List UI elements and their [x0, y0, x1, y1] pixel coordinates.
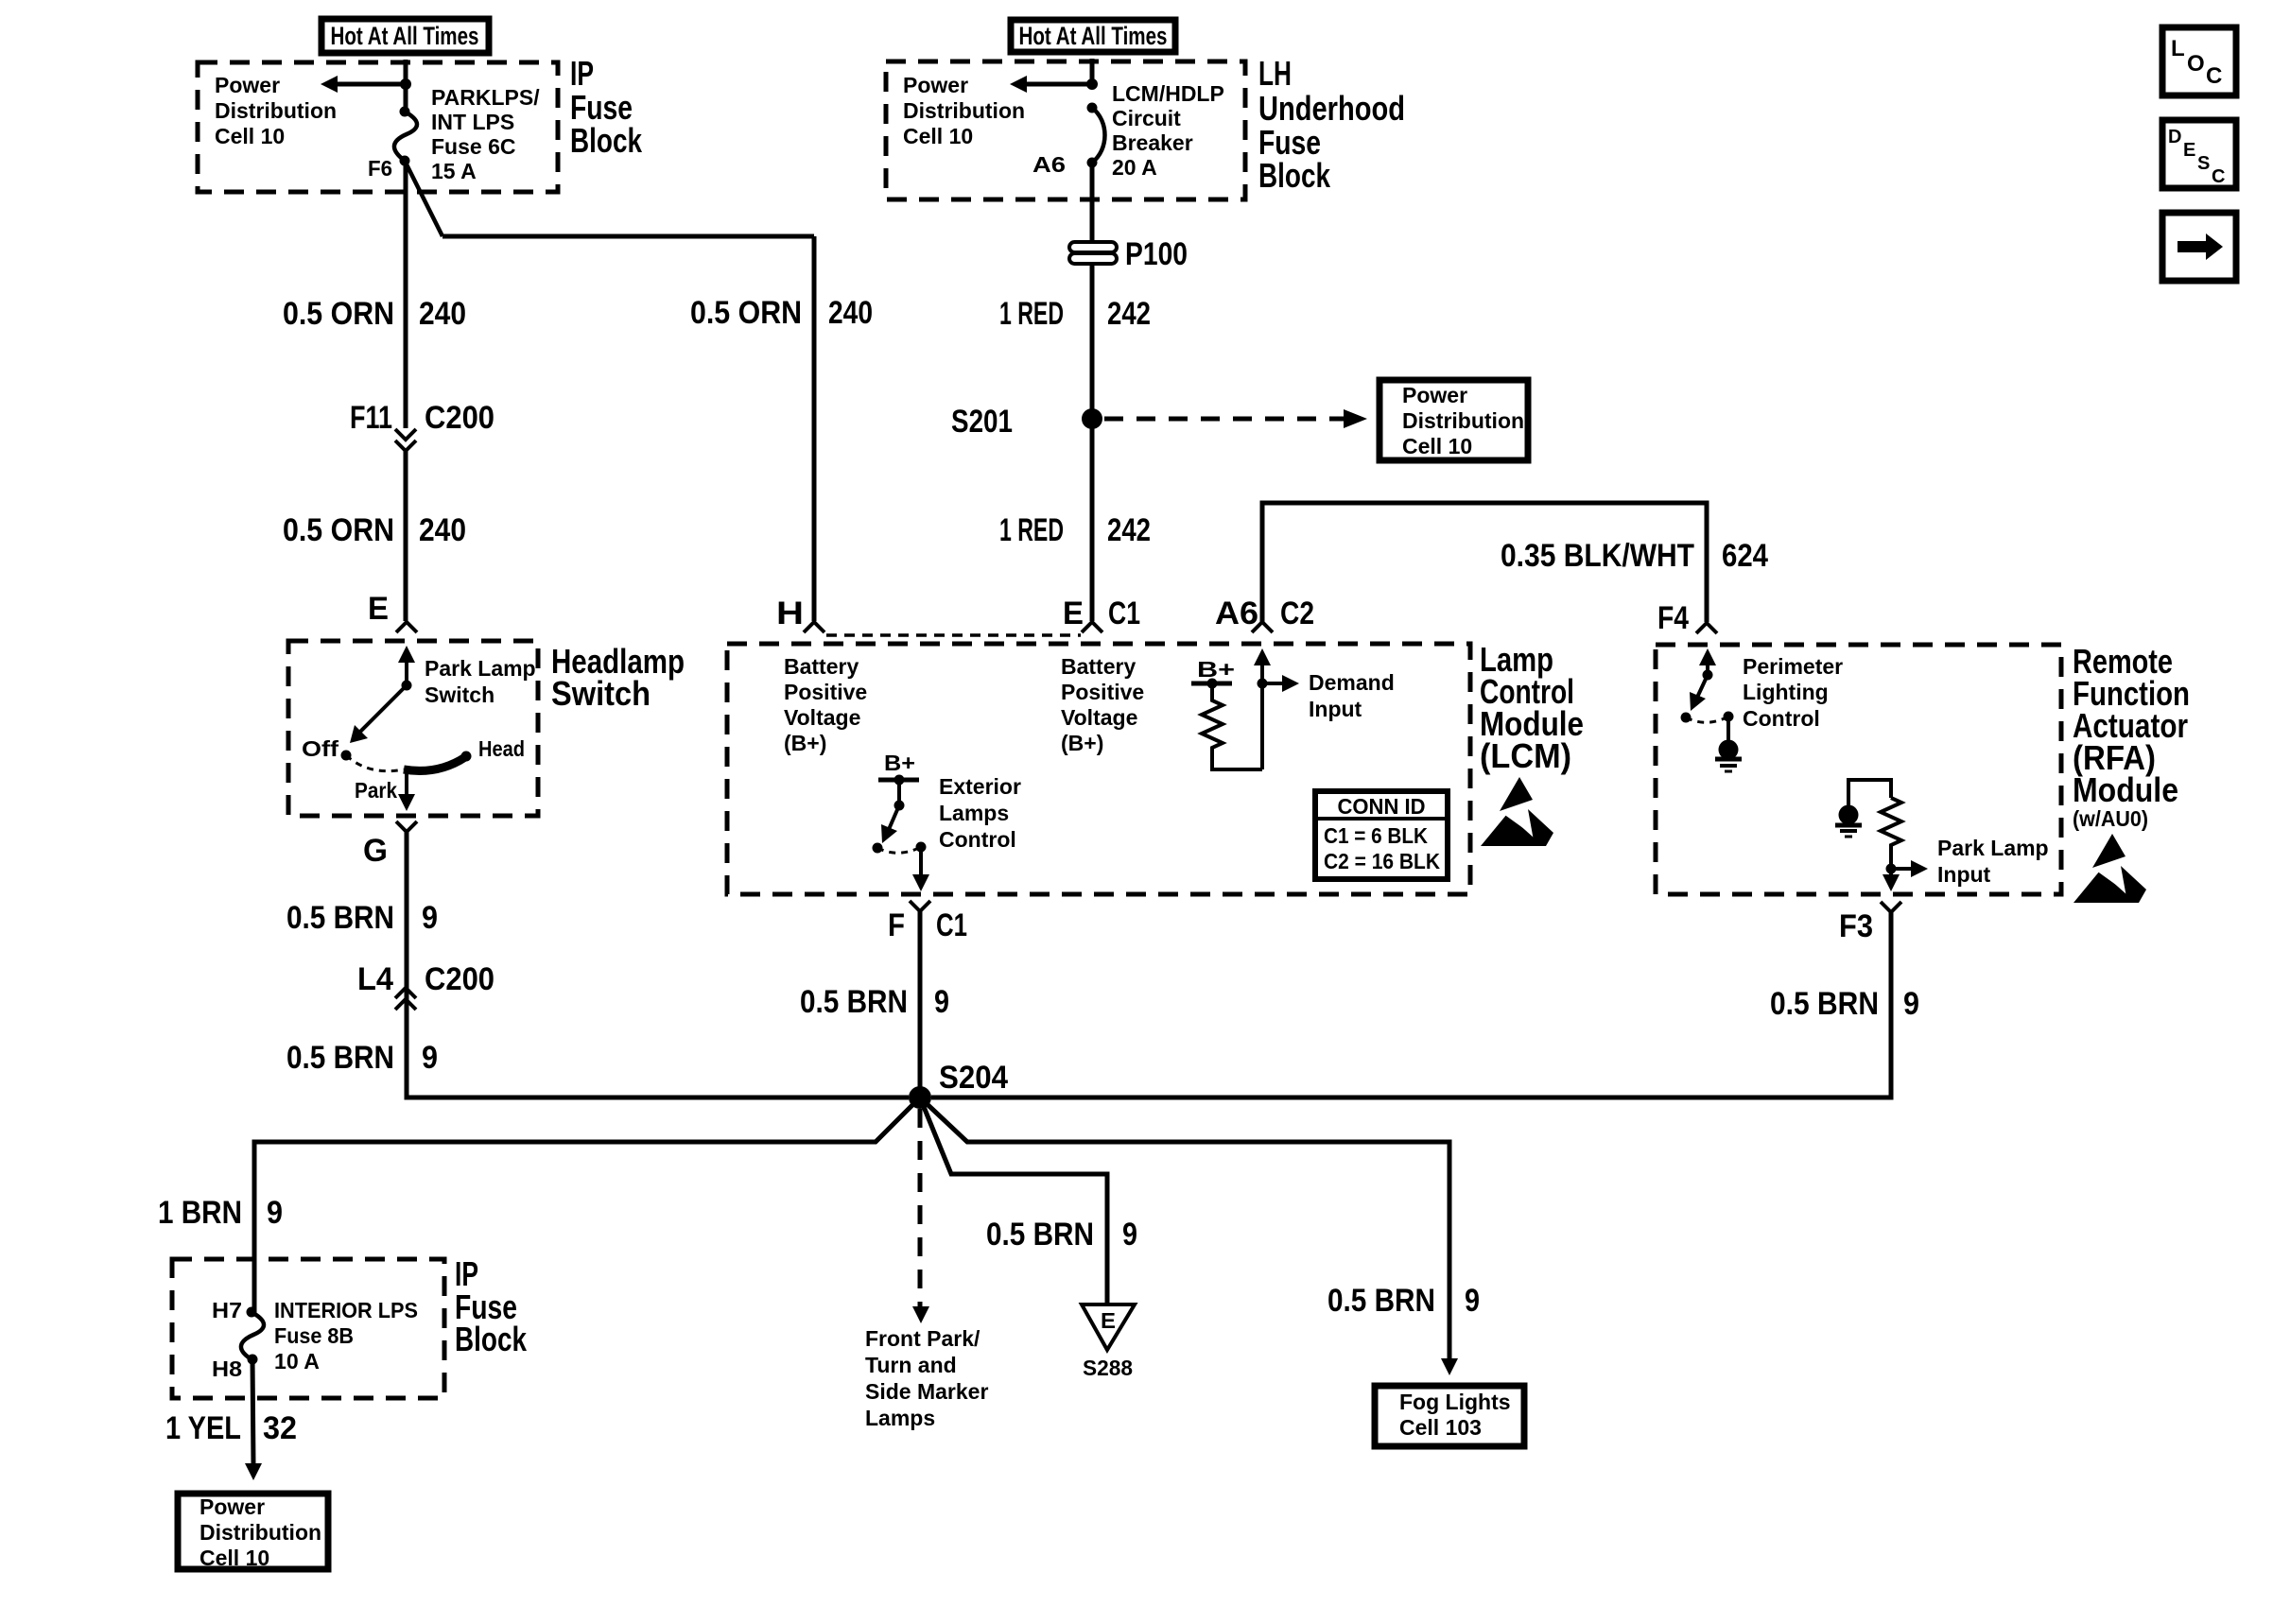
svg-text:9: 9: [1465, 1283, 1480, 1319]
wire: horizontal to second ORN drop: [442, 234, 814, 239]
button DESC: [2162, 120, 2236, 188]
svg-text:F6: F6: [368, 156, 392, 181]
connector G: [396, 821, 417, 832]
connector F3 below RFA: [1881, 902, 1901, 912]
svg-text:Park: Park: [355, 778, 397, 803]
wire: Park contact down with arrow: [405, 766, 408, 797]
arrow: Demand Input: [1262, 682, 1284, 685]
IP fuse block (top left) dashed box: [198, 62, 558, 192]
wire: exterior lamps control down with arrow: [919, 847, 923, 877]
svg-text:242: 242: [1107, 512, 1151, 548]
node: demand junction: [1258, 679, 1268, 689]
svg-text:9: 9: [422, 1040, 438, 1076]
svg-text:9: 9: [1122, 1217, 1137, 1253]
RFA perimeter lighting switch: arrow up to F4: [1706, 662, 1709, 675]
connector F C1 below LCM: [910, 901, 930, 911]
wire: S201 to LCM E/C1: [1090, 419, 1095, 621]
ESD symbol (LCM): [1481, 777, 1553, 846]
svg-text:0.35 BLK/WHT: 0.35 BLK/WHT: [1501, 538, 1694, 574]
wire: F6 diagonal branch: [405, 161, 442, 236]
svg-text:240: 240: [828, 295, 873, 331]
ground triangle S288: [1082, 1304, 1135, 1350]
svg-text:E: E: [1063, 596, 1084, 631]
wire: dashed internal link H to E: [826, 633, 1081, 637]
Hot At All Times box 2: [1011, 20, 1175, 52]
svg-text:624: 624: [1722, 538, 1768, 574]
remote function actuator RFA module dashed box: [1656, 645, 2061, 894]
wire: S204 right branch to fog lights: [920, 1097, 1449, 1358]
svg-text:9: 9: [1903, 986, 1919, 1022]
svg-text:240: 240: [419, 512, 466, 548]
svg-text:F: F: [888, 907, 905, 943]
node: junction dot IP feed: [400, 78, 411, 90]
ground (park lamp input): [1839, 805, 1859, 825]
svg-text:E: E: [368, 591, 389, 627]
svg-text:0.5 BRN: 0.5 BRN: [1327, 1283, 1435, 1319]
svg-text:Head: Head: [478, 736, 525, 761]
node: switch pivot: [402, 681, 412, 691]
svg-text:A6: A6: [1215, 596, 1258, 631]
lamp control module LCM dashed box: [727, 644, 1470, 894]
svg-text:S: S: [2197, 153, 2210, 174]
svg-text:C200: C200: [425, 400, 495, 436]
svg-text:C2 = 16 BLK: C2 = 16 BLK: [1324, 849, 1440, 873]
switch: exterior lamps control: [897, 780, 901, 805]
svg-text:0.5 BRN: 0.5 BRN: [800, 984, 908, 1020]
B+ bar (demand): [1191, 682, 1232, 686]
svg-text:H8: H8: [212, 1356, 242, 1381]
connector F4 at RFA: [1696, 623, 1717, 633]
svg-text:D: D: [2168, 127, 2181, 147]
LH underhood fuse block dashed box: [886, 61, 1245, 199]
wire: S204 branch to S288: [920, 1097, 1107, 1304]
svg-text:9: 9: [267, 1195, 283, 1231]
svg-text:IP: IP: [570, 54, 594, 93]
svg-text:INTERIOR LPS: INTERIOR LPS: [274, 1298, 418, 1322]
svg-text:0.5 BRN: 0.5 BRN: [286, 900, 394, 936]
svg-text:Hot At All Times: Hot At All Times: [1019, 22, 1168, 50]
RFA park lamp input bridge: [1848, 780, 1891, 805]
wire: hot feed into LH underhood fuse block: [1090, 59, 1095, 87]
Hot At All Times box 1: [321, 19, 489, 53]
wire: 0.5 ORN 240 drop to LCM H: [812, 236, 817, 621]
connector H at LCM: [804, 622, 824, 632]
resistor (park lamp input): [1881, 798, 1901, 869]
fuse INTERIOR LPS 8B (H7/H8): [247, 1307, 257, 1318]
ground (perimeter lighting): [1726, 717, 1730, 740]
headlamp switch dashed box: [288, 641, 538, 816]
svg-text:E: E: [2183, 140, 2195, 161]
wire: H8 down with arrow to power distribution: [252, 1359, 253, 1464]
wire: dashed arrow S201 to power distribution: [1104, 417, 1346, 422]
svg-text:Hot At All Times: Hot At All Times: [331, 22, 479, 50]
svg-text:32: 32: [263, 1410, 297, 1446]
svg-text:242: 242: [1107, 296, 1151, 332]
svg-text:0.5 ORN: 0.5 ORN: [283, 296, 394, 332]
connector E C1 at LCM: [1082, 622, 1102, 632]
wire: breaker to P100: [1090, 163, 1095, 242]
node: Head contact: [461, 752, 472, 762]
svg-text:E: E: [1101, 1308, 1116, 1333]
svg-text:O: O: [2187, 51, 2205, 77]
svg-text:C1: C1: [1108, 596, 1140, 631]
svg-text:Block: Block: [1258, 156, 1331, 195]
svg-text:0.5 BRN: 0.5 BRN: [286, 1040, 394, 1076]
svg-text:Block: Block: [455, 1320, 528, 1358]
svg-text:F11: F11: [350, 400, 392, 436]
svg-text:B+: B+: [1197, 657, 1235, 682]
ESD symbol (RFA): [2073, 834, 2146, 903]
dashed arc Off to Park: [346, 755, 404, 771]
wire: F6 down to F11: [404, 161, 408, 428]
wire: A6 C2 demand link: [1262, 503, 1707, 622]
svg-text:C2: C2: [1280, 596, 1314, 631]
svg-text:(LCM): (LCM): [1480, 736, 1571, 775]
svg-text:Off: Off: [302, 736, 338, 761]
svg-text:CONN ID: CONN ID: [1338, 794, 1426, 819]
svg-text:0.5 BRN: 0.5 BRN: [1770, 986, 1879, 1022]
svg-text:S201: S201: [951, 404, 1013, 440]
svg-text:L: L: [2171, 36, 2185, 61]
wire: S204 left branch to IP fuse (bottom): [254, 1097, 920, 1312]
svg-text:1 BRN: 1 BRN: [158, 1195, 242, 1231]
svg-text:LH: LH: [1258, 54, 1292, 93]
svg-text:Switch: Switch: [551, 674, 651, 713]
svg-text:C1: C1: [936, 907, 967, 943]
svg-text:G: G: [363, 833, 388, 869]
fuse F6 PARKLPS/INT LPS 15A: [404, 84, 408, 112]
svg-text:C: C: [2206, 63, 2222, 89]
IP fuse block (bottom left) dashed box: [172, 1259, 444, 1398]
svg-text:A6: A6: [1032, 152, 1066, 177]
svg-text:0.5 ORN: 0.5 ORN: [283, 512, 394, 548]
svg-text:C1 = 6 BLK: C1 = 6 BLK: [1324, 823, 1428, 848]
svg-text:0.5 BRN: 0.5 BRN: [986, 1217, 1094, 1253]
node: junction dot LH feed: [1086, 78, 1098, 90]
svg-text:S288: S288: [1083, 1356, 1133, 1380]
svg-text:1 RED: 1 RED: [999, 296, 1064, 332]
wire: P100 to S201: [1090, 264, 1095, 419]
svg-text:1 RED: 1 RED: [999, 512, 1064, 548]
svg-text:10 A: 10 A: [274, 1349, 320, 1373]
wire: park lamp input down with arrow: [1889, 869, 1893, 877]
svg-text:C200: C200: [425, 961, 495, 997]
svg-text:ExteriorLampsControl: ExteriorLampsControl: [939, 774, 1021, 852]
demand input: arrow up to C2: [1260, 662, 1264, 769]
wire: hot feed into IP fuse block: [404, 60, 408, 87]
arrow: Park Lamp Input: [1891, 867, 1913, 871]
splice S201: [1082, 408, 1102, 429]
button arrow: [2162, 213, 2236, 281]
wire: arrow to Power Distribution (LH block): [1026, 82, 1092, 87]
wire: F3 down to S204 line: [931, 912, 1891, 1097]
connector E at headlamp switch: [396, 622, 417, 632]
svg-text:B+: B+: [884, 751, 915, 775]
svg-text:0.5 ORN: 0.5 ORN: [690, 295, 802, 331]
wire: F C1 to S204: [918, 911, 923, 1097]
wire: G down to corner and to S204: [407, 832, 909, 1097]
svg-text:9: 9: [934, 984, 949, 1020]
splice S204: [909, 1086, 931, 1109]
svg-text:(w/AU0): (w/AU0): [2073, 806, 2148, 831]
svg-text:F3: F3: [1839, 908, 1873, 944]
svg-text:P100: P100: [1125, 236, 1188, 272]
svg-text:1 YEL: 1 YEL: [165, 1410, 241, 1446]
wire: dashed S204 to front park lamps: [918, 1109, 923, 1309]
headlamp switch: arrow up to E: [405, 656, 408, 685]
connector P100 grommet: [1069, 242, 1117, 252]
connector F11 C200: [395, 429, 416, 440]
box: Power Distribution Cell 10 (bottom): [178, 1494, 328, 1569]
svg-text:Fuse 8B: Fuse 8B: [274, 1323, 354, 1348]
svg-text:Underhood: Underhood: [1258, 89, 1405, 128]
box: Fog Lights Cell 103: [1375, 1386, 1524, 1446]
svg-text:240: 240: [419, 296, 466, 332]
connector A6 C2 at LCM: [1252, 622, 1273, 632]
switch wiper arm to Off: [357, 685, 407, 734]
svg-text:Block: Block: [570, 121, 643, 160]
node: park lamp input junction: [1886, 864, 1897, 874]
connector L4 C200: [395, 988, 416, 998]
circuit breaker LCM/HDLP 20A: [1087, 103, 1098, 113]
svg-text:S204: S204: [939, 1060, 1008, 1096]
button LOC: [2162, 27, 2236, 95]
svg-text:L4: L4: [357, 961, 393, 997]
box: Power Distribution Cell 10 (S201 target): [1379, 380, 1528, 460]
svg-text:H: H: [776, 596, 804, 631]
CONN ID table: [1315, 791, 1448, 879]
svg-text:H7: H7: [212, 1298, 242, 1322]
thick arc Park to Head: [404, 757, 465, 770]
wire: arrow to Power Distribution (left): [337, 82, 406, 87]
svg-text:Module: Module: [2073, 770, 2178, 809]
resistor (demand pullup): [1202, 683, 1262, 769]
svg-text:C: C: [2212, 166, 2225, 187]
node: Off contact: [341, 751, 352, 761]
wire: C200 to headlamp switch E: [404, 451, 408, 621]
svg-text:9: 9: [422, 900, 438, 936]
svg-text:F4: F4: [1657, 600, 1689, 636]
